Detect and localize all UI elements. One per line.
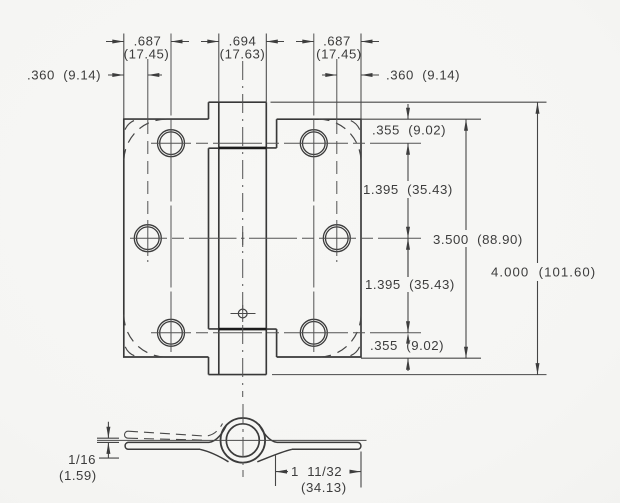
- barrel left step top: [208, 102, 210, 119]
- spring tube right edge: [265, 102, 267, 374]
- svg-text:(17.45): (17.45): [316, 47, 362, 62]
- tension adjustment hole: [238, 309, 247, 318]
- thin joins at knuckle shoulders: [209, 148, 277, 329]
- ext line plate left edge up: [123, 34, 125, 120]
- dimension 1.395 top: [407, 198, 409, 277]
- hole row centerline top: [151, 142, 421, 144]
- barrel housing left edge mid: [208, 148, 210, 329]
- right leaf notch edge bottom: [276, 329, 278, 357]
- svg-text:(17.45): (17.45): [124, 47, 170, 62]
- side view leaves: [125, 424, 361, 462]
- dimension 4.000: [537, 102, 539, 374]
- corner arc top-left r1/4: [124, 119, 141, 136]
- 1 11/32 dim line: [276, 471, 362, 473]
- dimension .360 right: [322, 74, 379, 76]
- dimension .687 left: [106, 41, 189, 43]
- corner arc top-left r5/8: [124, 119, 167, 162]
- hole bottom-right: [300, 319, 327, 346]
- dimension .687 right: [296, 41, 379, 43]
- spring tube left edge: [218, 102, 220, 374]
- svg-text:(1.59): (1.59): [59, 468, 97, 483]
- dashed leaf bottom line: [128, 438, 205, 440]
- corner arc bottom-right r1/4: [344, 340, 361, 357]
- svg-text:.355 (9.02): .355 (9.02): [370, 338, 444, 353]
- dashed sprung leaf position: [128, 424, 223, 441]
- ext line barrel bottom right: [272, 374, 547, 376]
- svg-text:4.000 (101.60): 4.000 (101.60): [491, 265, 596, 280]
- svg-text:3.500 (88.90): 3.500 (88.90): [433, 232, 523, 247]
- ext line barrel top right: [271, 101, 547, 103]
- hole top-right: [300, 130, 327, 157]
- 1/16 dim extension lines: [97, 438, 119, 442]
- svg-text:.355 (9.02): .355 (9.02): [372, 123, 446, 138]
- hinge plate left leaf outline: [124, 119, 209, 357]
- hole column line left outer: [170, 34, 172, 353]
- ext line leaf bottom right: [361, 357, 481, 359]
- knuckle shoulder dark line top: [219, 147, 266, 150]
- hole row centerline bottom: [151, 332, 421, 334]
- right leaf wing under barrel: [257, 449, 292, 462]
- side view frame reference line: [97, 439, 367, 441]
- 1 11/32 dim extension lines: [276, 452, 362, 488]
- corner radius option arcs (dashed): [124, 119, 361, 357]
- dimension 3.500: [465, 119, 467, 358]
- corner arc bottom-left r5/8: [124, 315, 167, 358]
- hole middle-right: [323, 225, 350, 252]
- right leaf notch edge top: [276, 119, 278, 148]
- hole row centerline middle: [130, 237, 421, 239]
- svg-text:1/16: 1/16: [68, 452, 96, 467]
- hole column line left middle: [147, 59, 149, 121]
- 1/16 dim arrows: [99, 422, 119, 458]
- svg-text:.360 (9.14): .360 (9.14): [27, 68, 101, 83]
- svg-text:1.395 (35.43): 1.395 (35.43): [363, 182, 453, 197]
- adjustment hole centerline: [231, 313, 256, 315]
- left leaf neck to barrel top: [209, 424, 227, 442]
- barrel cap top edge: [209, 101, 267, 103]
- ext line leaf top right: [361, 118, 481, 120]
- dashed leaf top line: [128, 424, 223, 437]
- hole middle-left: [134, 225, 161, 252]
- side view vertical centerline: [242, 404, 244, 477]
- hole column line right outer: [313, 34, 315, 353]
- ext line tube left up: [218, 34, 220, 103]
- hole bottom-left: [158, 319, 185, 346]
- dashed leaf tip arc: [125, 431, 128, 438]
- screw holes: [134, 130, 350, 347]
- dimension 1.395 bottom: [407, 238, 409, 333]
- hole top-left: [158, 130, 185, 157]
- right leaf neck to barrel top: [259, 424, 277, 442]
- left leaf bar: [125, 442, 209, 449]
- corner arc top-right r5/8: [319, 119, 362, 162]
- svg-text:(34.13): (34.13): [301, 480, 347, 495]
- svg-text:1.395 (35.43): 1.395 (35.43): [365, 277, 455, 292]
- right leaf bar: [277, 442, 361, 449]
- dimension .360 left: [108, 74, 162, 76]
- hinge plate right leaf outline: [277, 119, 361, 357]
- barrel left step bottom: [208, 357, 210, 375]
- dimension .694 center: [201, 41, 284, 43]
- dimension .355 top (ext arrows at x=408): [407, 104, 409, 181]
- vertical centerline barrel (dashed): [242, 61, 244, 397]
- barrel cap bottom edge: [209, 374, 267, 376]
- svg-text:1 11/32: 1 11/32: [291, 464, 342, 479]
- ext line plate right edge up: [360, 34, 362, 120]
- dimension .355 bottom: [407, 358, 409, 371]
- centerlines of top view: [130, 34, 421, 398]
- svg-text:.360 (9.14): .360 (9.14): [386, 68, 460, 83]
- corner arc bottom-right r5/8: [319, 315, 362, 358]
- ext line tube right up: [265, 34, 267, 103]
- corner arc top-right r1/4: [344, 119, 361, 136]
- svg-text:(17.63): (17.63): [220, 47, 266, 62]
- knuckle shoulder dark line bottom: [219, 328, 266, 331]
- side view barrel inner circle: [226, 424, 259, 457]
- side view barrel outer circle: [221, 418, 266, 463]
- hole column line right middle: [336, 59, 338, 121]
- corner arc bottom-left r1/4: [124, 340, 141, 357]
- extension lines: [124, 34, 547, 375]
- left leaf wing under barrel: [200, 449, 229, 462]
